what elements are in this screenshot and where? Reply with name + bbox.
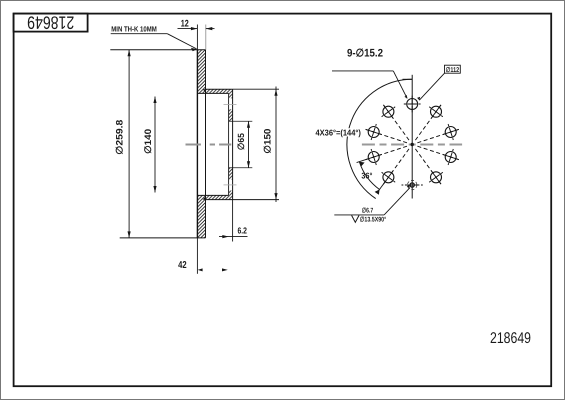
36deg dimension arc bbox=[359, 162, 379, 190]
locating hole annotation line bbox=[334, 214, 384, 216]
arrow Ø140 bottom bbox=[153, 186, 156, 193]
plate right face line bbox=[232, 89, 234, 199]
dimension 12 left ext bbox=[196, 25, 198, 50]
vertical centre axis bbox=[411, 75, 413, 199]
arrow 12 left bbox=[191, 27, 198, 30]
hat strip section hatch top bbox=[206, 89, 233, 93]
dimension 12 line right bbox=[206, 28, 215, 30]
rotor bottom edge + dim extension bbox=[120, 237, 206, 239]
hat strip outer edge top bbox=[206, 88, 233, 90]
svg-text:∅65: ∅65 bbox=[236, 133, 246, 150]
rotor top edge + dim extension bbox=[110, 49, 205, 51]
dimension 12 right ext bbox=[205, 25, 207, 50]
dimension Ø150 line bbox=[275, 87, 277, 203]
arrow Ø65 top bbox=[247, 121, 250, 128]
plate left face line bbox=[228, 93, 230, 195]
bolt hole 90 deg bbox=[407, 99, 418, 110]
arrow Ø259.8 bottom bbox=[128, 231, 131, 238]
svg-text:218649: 218649 bbox=[27, 13, 74, 33]
dimension Ø140 line bbox=[154, 97, 156, 193]
dimension Ø259.8 line bbox=[128, 50, 130, 238]
hat strip inner edge bottom bbox=[197, 194, 228, 196]
spoke 198 deg bbox=[365, 146, 407, 160]
arrow leader locating hole bbox=[407, 184, 410, 187]
leader 112 diagonal bbox=[419, 73, 444, 100]
bolt hole 198 deg bbox=[368, 152, 379, 163]
bolt hole 306 deg bbox=[431, 172, 442, 183]
Ø150 top extension line bbox=[233, 88, 279, 90]
svg-text:12: 12 bbox=[181, 19, 189, 30]
bore top edge + extension bbox=[229, 120, 253, 122]
countersink symbol bbox=[352, 215, 359, 222]
bolt hole 162 deg bbox=[368, 127, 379, 138]
rotor section hatch top bbox=[197, 50, 205, 94]
arrow leader 112 bbox=[417, 97, 420, 100]
svg-text:218649: 218649 bbox=[490, 330, 531, 347]
bolt hole 234 deg bbox=[383, 172, 394, 183]
spoke 18 deg bbox=[417, 129, 459, 143]
locating hole horizontal tick bbox=[402, 184, 425, 186]
rotor outer face line bbox=[196, 50, 198, 238]
hat strip outer edge bottom + Ø150 extension bbox=[206, 199, 280, 201]
bolt hole center tick top (section) bbox=[224, 103, 237, 105]
centre point bbox=[411, 143, 414, 146]
fillet top junction bbox=[203, 89, 206, 92]
arrow Ø140 top bbox=[153, 97, 156, 104]
white mask under 4X36 text bbox=[315, 128, 361, 136]
dimension 42 ext line bbox=[196, 238, 198, 274]
36deg arrow 198 bbox=[359, 162, 364, 167]
arrow leader 9-15.2 bbox=[404, 95, 407, 98]
partial flange outline arc bbox=[347, 79, 412, 198]
label box 112 bbox=[445, 65, 461, 73]
bore bottom edge + extension bbox=[229, 167, 253, 169]
horizontal centreline bbox=[362, 143, 462, 145]
dimension 6.2 line bbox=[219, 236, 248, 238]
arrow Ø259.8 top bbox=[128, 50, 131, 57]
spoke 54 deg bbox=[415, 105, 441, 141]
svg-text:4X36°=(144°): 4X36°=(144°) bbox=[316, 128, 362, 138]
locating hole 6.7 at bottom bbox=[410, 183, 414, 187]
mounting plate hatch segments bbox=[229, 93, 233, 98]
bolt hole 54 deg bbox=[431, 106, 442, 117]
spoke 162 deg bbox=[365, 129, 407, 143]
arrow 6.2 bbox=[222, 235, 229, 238]
spoke 234 deg bbox=[383, 149, 409, 185]
bolt hole 126 deg bbox=[383, 106, 394, 117]
svg-text:∅150: ∅150 bbox=[262, 129, 273, 154]
svg-text:∅6.7: ∅6.7 bbox=[362, 208, 374, 215]
arrow 42 left bbox=[198, 268, 203, 271]
arrow 12 right bbox=[206, 27, 213, 30]
hat strip inner edge top bbox=[197, 92, 228, 94]
svg-text:MIN TH-K 10MM: MIN TH-K 10MM bbox=[111, 25, 157, 34]
dimension 12 line left bbox=[178, 28, 198, 30]
leader 9-15.2 diagonal bbox=[393, 71, 407, 99]
dimension Ø65 line bbox=[248, 121, 250, 168]
rotor section hatch bottom bbox=[197, 195, 205, 238]
svg-text:∅112: ∅112 bbox=[446, 66, 460, 74]
dimension 6.2 ext line bbox=[232, 200, 234, 242]
bolt hole center tick bottom (section) bbox=[224, 184, 237, 186]
rotor inner face line bbox=[205, 50, 207, 238]
bolt hole 18 deg bbox=[445, 127, 456, 138]
hat strip section hatch bottom bbox=[206, 195, 233, 199]
centerline left view bbox=[186, 144, 232, 146]
svg-text:∅140: ∅140 bbox=[142, 129, 153, 154]
arrow min thickness leader bbox=[191, 48, 197, 52]
bolt hole 342 deg bbox=[445, 152, 456, 163]
countersink dashed circle bbox=[408, 180, 417, 189]
min thickness leader diagonal bbox=[167, 34, 196, 49]
title box bbox=[14, 14, 88, 32]
svg-text:36°: 36° bbox=[361, 170, 373, 180]
min thickness leader underline bbox=[111, 33, 168, 35]
leader locating hole bbox=[384, 188, 410, 215]
arrow 42 right bbox=[222, 268, 228, 271]
36deg extension line 198 bbox=[357, 159, 367, 162]
svg-text:∅13.5X90°: ∅13.5X90° bbox=[360, 216, 387, 223]
arc top horizontal tail bbox=[403, 78, 413, 80]
svg-text:6.2: 6.2 bbox=[237, 225, 247, 235]
fillet bottom junction bbox=[203, 197, 206, 200]
svg-text:9-∅15.2: 9-∅15.2 bbox=[347, 48, 383, 60]
spoke 342 deg bbox=[417, 146, 459, 160]
arrow Ø65 bottom bbox=[247, 161, 250, 168]
spoke 126 deg bbox=[383, 105, 409, 141]
leader 9-15.2 horizontal bbox=[332, 70, 393, 72]
arrow Ø150 top bbox=[274, 89, 277, 96]
arrow Ø150 bottom bbox=[274, 193, 277, 200]
spoke 306 deg bbox=[415, 149, 441, 185]
svg-text:42: 42 bbox=[178, 260, 187, 271]
36deg arrow 234 bbox=[375, 190, 380, 195]
svg-text:∅259.8: ∅259.8 bbox=[114, 120, 125, 155]
36deg extension line 234 bbox=[378, 183, 384, 192]
